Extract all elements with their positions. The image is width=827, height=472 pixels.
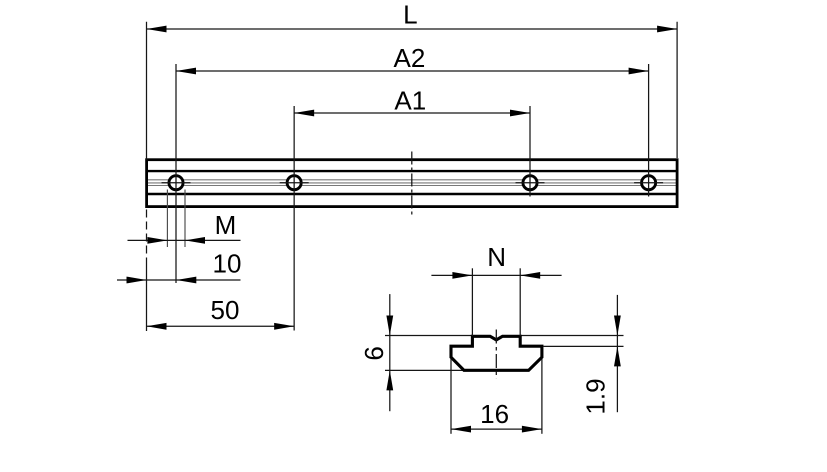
svg-text:6: 6	[359, 346, 389, 360]
svg-text:L: L	[403, 0, 417, 30]
svg-text:1.9: 1.9	[581, 378, 611, 414]
svg-text:A1: A1	[394, 86, 426, 116]
svg-text:50: 50	[211, 295, 240, 325]
svg-text:A2: A2	[393, 43, 425, 73]
svg-text:N: N	[487, 242, 506, 272]
svg-text:10: 10	[213, 249, 242, 279]
svg-text:16: 16	[480, 399, 509, 429]
svg-text:M: M	[215, 210, 237, 240]
